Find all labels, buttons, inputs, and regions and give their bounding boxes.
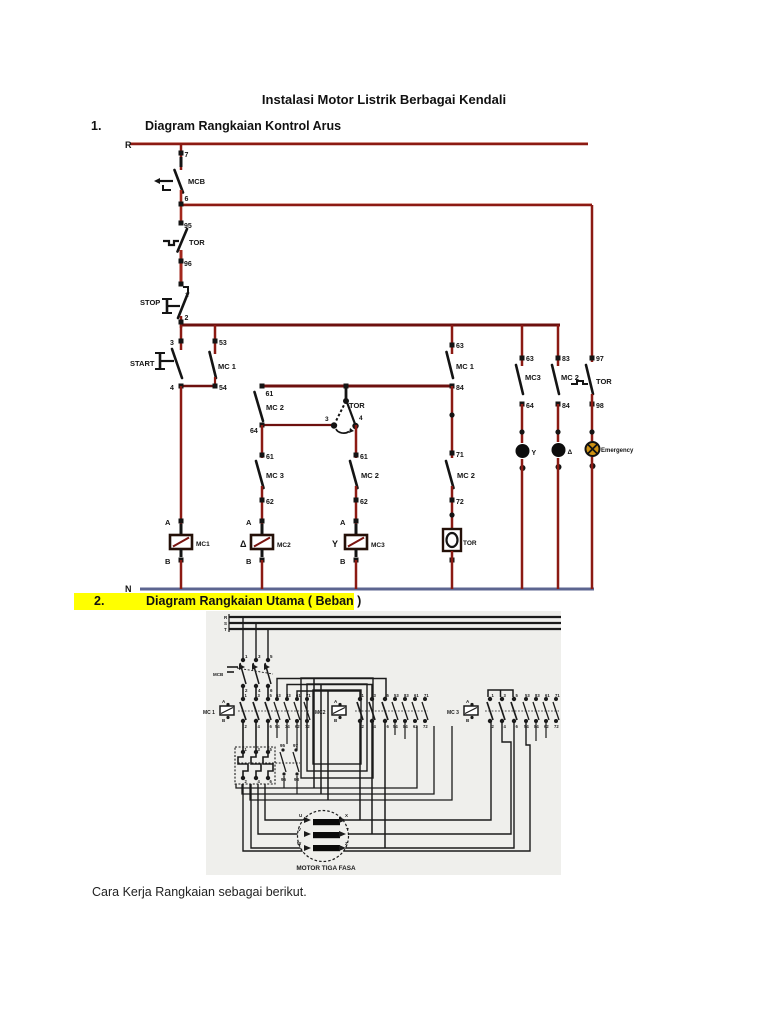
MC2 linkage	[355, 710, 428, 712]
wire bus node 61 to node 84	[262, 385, 452, 388]
svg-text:62: 62	[266, 499, 274, 506]
pin 53 label	[219, 340, 227, 347]
svg-text:A: A	[246, 518, 252, 527]
contact MC1 NO right	[447, 352, 454, 378]
wire MC1 aux62 stub	[296, 722, 298, 750]
wire node 96 to auxiliary contact	[180, 250, 183, 284]
node 84L	[556, 402, 561, 407]
contact MC2 right label	[457, 471, 475, 480]
node A coil MC1 top	[179, 519, 184, 524]
node 3	[179, 339, 184, 344]
svg-text:83: 83	[404, 693, 409, 698]
contact MC2 NO lamp Delta	[552, 365, 559, 394]
MC1 aux contact 2	[284, 702, 290, 720]
MC2 main contact 1	[357, 702, 363, 720]
MC2 aux pole 3 top node	[413, 697, 417, 701]
MC3 aux contact 3	[543, 702, 549, 720]
motor terminal Z label	[345, 841, 348, 846]
wire node 4 down to coil MC1	[180, 386, 183, 524]
terminal B label MC1	[165, 557, 171, 566]
svg-text:3: 3	[170, 340, 174, 347]
pin 72 label	[456, 499, 464, 506]
lamp Emergency bottom	[590, 463, 596, 469]
svg-text:A: A	[340, 518, 346, 527]
svg-text:97: 97	[596, 356, 604, 363]
MCB out node 4	[254, 684, 258, 688]
MC3 main contact 1	[487, 702, 493, 720]
svg-text:R: R	[125, 140, 132, 150]
svg-text:71: 71	[424, 693, 429, 698]
bus left tie	[228, 614, 230, 632]
wire bus to node 53	[214, 325, 217, 354]
MC3 main contact 2	[499, 702, 505, 720]
svg-text:98: 98	[596, 403, 604, 410]
svg-text:62: 62	[360, 499, 368, 506]
svg-text:62: 62	[295, 724, 300, 729]
node TOR selector junction	[344, 384, 349, 389]
svg-text:Y: Y	[532, 450, 537, 457]
node 64	[260, 423, 265, 428]
pin 84L label	[562, 403, 570, 410]
pin 71 label	[456, 452, 464, 459]
wire MC1 aux feed 2	[287, 685, 321, 700]
junction 432b	[555, 429, 560, 434]
MC1 main pin labels	[245, 693, 273, 729]
pushbutton START	[155, 349, 182, 378]
svg-text:63: 63	[526, 356, 534, 363]
wire bus 2 to node 63	[521, 325, 524, 366]
svg-text:61: 61	[545, 693, 550, 698]
MCB out pin 2 label	[245, 688, 248, 693]
svg-text:N: N	[125, 584, 132, 594]
svg-text:MCB: MCB	[213, 672, 224, 677]
wire TOR out 2 riser	[242, 726, 434, 794]
wire arch inner around MC2	[328, 691, 360, 800]
pin 2 label	[185, 315, 189, 322]
node 63	[520, 356, 525, 361]
junction 515	[449, 512, 454, 517]
svg-text:B: B	[340, 557, 346, 566]
contact TOR emergency label	[596, 377, 612, 386]
wire motor X row to MC3 pole1	[339, 722, 491, 820]
wire STOP to node 2	[180, 316, 183, 328]
svg-text:B: B	[246, 557, 252, 566]
TOR in pin 3 label	[258, 747, 261, 752]
wire node 4 to node 54	[181, 385, 215, 388]
MC2 main pole 1 bottom node	[358, 719, 362, 723]
svg-text:MC3: MC3	[525, 373, 541, 382]
MC3 aux bottom pin labels	[524, 724, 559, 729]
MCB out node 6	[266, 684, 270, 688]
svg-text:53: 53	[219, 340, 227, 347]
MC1 main pole 1 bottom node	[241, 719, 245, 723]
TOR heater elements	[238, 754, 300, 776]
TOR aux node 96	[282, 772, 285, 775]
svg-text:61: 61	[266, 454, 274, 461]
MC1 aux pole 3 bottom node	[295, 719, 299, 723]
selector point 3	[331, 422, 337, 428]
contact MC2 mid label	[361, 471, 379, 480]
contact MC2 NC interlock mid	[350, 461, 358, 488]
pin 64 label	[250, 428, 258, 435]
MC1 main contact 2	[253, 702, 259, 720]
wire MC2 pole2 drop	[371, 722, 373, 834]
breaker MCB	[154, 170, 183, 193]
wire MC1 aux34 stub	[286, 722, 288, 744]
lamp Delta label	[568, 449, 573, 456]
bus phase R	[229, 616, 561, 618]
MC3 main pole 1 top node	[488, 697, 492, 701]
MC3 aux contact 2	[533, 702, 539, 720]
contact TOR trip emergency	[571, 365, 593, 394]
svg-text:MC 2: MC 2	[266, 403, 284, 412]
node 61b	[260, 453, 265, 458]
svg-text:MC 2: MC 2	[457, 471, 475, 480]
pin 62c label	[360, 499, 368, 506]
svg-text:3: 3	[325, 416, 329, 423]
node 6	[179, 202, 184, 207]
contact MC2 label	[266, 403, 284, 412]
wire node 84 to node 71	[451, 386, 454, 458]
svg-text:Δ: Δ	[568, 449, 573, 456]
coil MC3 label	[371, 542, 385, 549]
node B coil MC1 bottom	[179, 558, 184, 563]
contact MC3 label	[266, 471, 284, 480]
wire phase S drop	[255, 623, 257, 660]
pin 3 label	[170, 340, 174, 347]
MCB node 3	[254, 658, 258, 662]
svg-text:Y: Y	[332, 539, 338, 549]
wire MC3 aux62 stub	[545, 722, 547, 738]
MC2 aux pole 1 bottom node	[393, 719, 397, 723]
svg-text:4: 4	[359, 415, 363, 422]
wire arch outer around MC2	[314, 679, 386, 789]
net label N	[125, 584, 132, 594]
MC1 aux pole 3 top node	[295, 697, 299, 701]
MC1 main pole 3 bottom node	[266, 719, 270, 723]
wire node 64 to node 61b	[261, 425, 264, 458]
node 2	[179, 320, 184, 325]
motor terminal Y label	[346, 827, 349, 832]
contact MC1 right label	[456, 362, 474, 371]
MC3 main pole 3 bottom node	[512, 719, 516, 723]
svg-text:97: 97	[293, 743, 299, 748]
MCB label	[213, 672, 224, 677]
node 61c	[354, 453, 359, 458]
TOR in node 3	[254, 750, 258, 754]
motor terminal W label	[297, 841, 302, 846]
TOR pin 96 label	[281, 777, 287, 782]
MCB out pin 6 label	[270, 688, 273, 693]
wire MCB to MC1 pole 2	[255, 686, 257, 699]
TOR in node 1	[241, 750, 245, 754]
svg-text:6: 6	[185, 196, 189, 203]
wire arch middle around MC2	[321, 685, 372, 795]
contactor coil MC2	[315, 699, 346, 723]
node 62	[260, 498, 265, 503]
contact MC2 NC interlock	[255, 392, 264, 421]
MC1 aux contact 3	[294, 702, 300, 720]
TOR pin 98 label	[294, 777, 300, 782]
TOR out pin 2 label	[245, 779, 248, 784]
MC1 aux contact 4	[304, 702, 310, 720]
svg-text:64: 64	[526, 403, 534, 410]
MC3 aux pole 4 bottom node	[554, 719, 558, 723]
wire MC2 aux84 stub	[404, 722, 406, 739]
pushbutton STOP	[162, 293, 188, 318]
coil MC1 label	[196, 541, 210, 548]
lamp Emergency indicator	[586, 442, 600, 456]
MC1 aux pole 1 bottom node	[275, 719, 279, 723]
MC2 aux contact 2	[402, 702, 408, 720]
wire node 2 to node 3	[180, 325, 183, 350]
svg-text:Z: Z	[345, 841, 348, 846]
svg-text:71: 71	[456, 452, 464, 459]
wire MC1 to TOR pole 1	[242, 721, 244, 752]
svg-text:83: 83	[562, 356, 570, 363]
TOR out node 6	[266, 776, 270, 780]
routing loop middle	[307, 684, 367, 771]
auxiliary notch contact	[183, 287, 188, 292]
svg-text:MC 3: MC 3	[447, 710, 459, 716]
MC3 aux pole 3 top node	[544, 697, 548, 701]
MC1 main pole 3 top node	[266, 697, 270, 701]
wire MC1 aux54 stub	[276, 722, 278, 738]
wire bus 2 to node 83	[557, 325, 560, 366]
MC3 main pole 2 top node	[500, 697, 504, 701]
motor terminal V label	[298, 827, 301, 832]
contactor coil MC 1	[203, 699, 234, 723]
svg-text:53: 53	[394, 693, 399, 698]
MC2 aux pole 4 bottom node	[423, 719, 427, 723]
MCB out pin 4 label	[258, 688, 261, 693]
wire lamp Delta to N	[557, 458, 560, 589]
TOR out pin 4 label	[258, 779, 261, 784]
node B coil MC3 bottom	[354, 558, 359, 563]
svg-text:83: 83	[535, 693, 540, 698]
pin 95 label	[184, 223, 192, 230]
MC2 main pole 2 bottom node	[370, 719, 374, 723]
svg-text:S: S	[224, 621, 227, 626]
wire TOR aux98 stub	[296, 776, 298, 794]
svg-text:96: 96	[184, 261, 192, 268]
MC2 aux pole 2 bottom node	[403, 719, 407, 723]
MC3 aux pole 4 top node	[554, 697, 558, 701]
MC3 aux contact 4	[553, 702, 559, 720]
MC1 main pole 1 top node	[241, 697, 245, 701]
wire bottom outer loop	[243, 722, 530, 851]
svg-text:64: 64	[250, 428, 258, 435]
MC1 main pole 2 top node	[254, 697, 258, 701]
MCB pin 3 label	[258, 654, 261, 659]
contactor coil MC 3	[447, 699, 478, 723]
lamp Emergency label	[601, 448, 634, 454]
delta symbol label MC2	[240, 539, 247, 549]
lamp Delta bottom	[556, 464, 562, 470]
node 98	[590, 402, 595, 407]
svg-text:72: 72	[423, 724, 428, 729]
MC2 aux contact 1	[392, 702, 398, 720]
routing loop outer	[301, 678, 373, 778]
pin 83 label	[562, 356, 570, 363]
wire from node 6 to emergency branch	[181, 204, 592, 205]
wire emergency branch vertical upper	[591, 205, 594, 362]
wire lamp Emergency to N	[591, 457, 594, 589]
node 53	[213, 339, 218, 344]
svg-text:T: T	[224, 627, 227, 632]
TOR out pin 6 label	[270, 779, 273, 784]
MC3 linkage	[485, 710, 559, 712]
svg-text:TOR: TOR	[596, 377, 612, 386]
breaker MCB label	[188, 177, 206, 186]
MC1 aux pole 4 top node	[305, 697, 309, 701]
contact MC3 NC interlock	[256, 461, 264, 488]
pin 63 label	[526, 356, 534, 363]
node 72	[450, 498, 455, 503]
TOR aux node 95	[281, 748, 284, 751]
neutral bus N	[140, 588, 594, 591]
svg-text:Δ: Δ	[240, 539, 247, 549]
wire node 64 to TOR selector point 3	[262, 424, 333, 426]
MC1 main pole 2 bottom node	[254, 719, 258, 723]
pin 98 label	[596, 403, 604, 410]
terminal A label MC2	[246, 518, 252, 527]
MC2 aux pole 4 top node	[423, 697, 427, 701]
node 61	[260, 384, 265, 389]
coil MC3 star	[345, 524, 367, 557]
MC1 linkage	[238, 710, 310, 712]
wire MC3 star bridge	[488, 690, 513, 697]
thermal overload contact TOR NC	[163, 229, 187, 252]
svg-text:84: 84	[456, 385, 464, 392]
MC3 aux pole 1 bottom node	[524, 719, 528, 723]
wire MC2 aux54 stub	[394, 722, 396, 735]
wire R bus to MCB	[180, 144, 183, 170]
pin 62 label	[266, 499, 274, 506]
TOR contact label	[189, 238, 205, 247]
svg-text:62: 62	[544, 724, 549, 729]
node 63r	[450, 343, 455, 348]
MC3 aux pole 2 bottom node	[534, 719, 538, 723]
junction 432a	[519, 429, 524, 434]
wire node 72 to coil TOR	[451, 486, 454, 530]
svg-text:MC1: MC1	[196, 541, 210, 548]
svg-text:84: 84	[534, 724, 539, 729]
motor terminal U label	[299, 813, 302, 818]
MC3 aux top pin labels	[525, 693, 560, 698]
svg-text:MC 1: MC 1	[203, 710, 215, 716]
MC3 aux pole 3 bottom node	[544, 719, 548, 723]
MC1 aux contact 1	[274, 702, 280, 720]
contact MC2 lamp label	[561, 373, 579, 382]
pin 84r label	[456, 385, 464, 392]
svg-text:72: 72	[456, 499, 464, 506]
coil MC1	[170, 524, 192, 557]
MC2 main pole 1 top node	[358, 697, 362, 701]
svg-text:Emergency: Emergency	[601, 448, 634, 454]
pin 4 label	[170, 385, 174, 392]
wire contact MC1 to node 54	[214, 377, 216, 386]
bus label S	[224, 621, 227, 626]
MC3 aux pole 2 top node	[534, 697, 538, 701]
MC2 main pole 2 top node	[370, 697, 374, 701]
svg-text:95: 95	[280, 743, 286, 748]
svg-text:54: 54	[219, 385, 227, 392]
contact MC1 NO holding	[210, 352, 217, 378]
junction 415	[449, 412, 454, 417]
wire phase R drop	[242, 617, 244, 660]
breaker MCB 3-pole	[227, 663, 273, 684]
wire phase T drop	[267, 629, 269, 660]
wire coil MC2 to N	[261, 560, 264, 589]
bus label T	[224, 627, 227, 632]
terminal B label MC3	[340, 557, 346, 566]
node 64L	[520, 402, 525, 407]
svg-text:V: V	[298, 827, 301, 832]
svg-text:7: 7	[185, 152, 189, 159]
bus label R	[224, 615, 228, 620]
wire TOR out 3 riser	[250, 726, 452, 800]
TOR out node 2	[241, 776, 245, 780]
wire node 84L to lamp Delta	[557, 404, 560, 442]
wire MCB to MC1 pole 3	[267, 686, 269, 699]
MC3 main pole 1 bottom node	[488, 719, 492, 723]
wire MC3 aux84 stub	[535, 722, 537, 741]
node 62c	[354, 498, 359, 503]
pin 61b label	[266, 454, 274, 461]
wire MCB to node 95	[180, 190, 183, 224]
wire to motor terminal W	[251, 784, 311, 848]
svg-text:61: 61	[414, 693, 419, 698]
pin 96 label	[184, 261, 192, 268]
svg-text:TOR: TOR	[463, 540, 477, 547]
MC1 main contact 3	[265, 702, 271, 720]
pin 54 label	[219, 385, 227, 392]
TOR aux node 98	[295, 772, 298, 775]
MC2 aux pole 1 top node	[393, 697, 397, 701]
pin 6 label	[185, 196, 189, 203]
svg-text:61: 61	[266, 391, 274, 398]
motor terminal X label	[345, 813, 348, 818]
bus phase T	[229, 628, 561, 630]
MC2 aux pole 3 bottom node	[413, 719, 417, 723]
wire motor Z row to MC3 pole3	[339, 722, 514, 848]
lamp Y indicator	[516, 444, 530, 458]
TOR pin 97 label	[293, 743, 299, 748]
svg-text:2: 2	[185, 315, 189, 322]
MC2 aux bottom pin labels	[393, 724, 428, 729]
node 96	[179, 259, 184, 264]
node 95	[179, 221, 184, 226]
pin 7 label	[185, 152, 189, 159]
MC1 aux pole 4 bottom node	[305, 719, 309, 723]
svg-text:X: X	[345, 813, 348, 818]
node A coil MC3 top	[354, 519, 359, 524]
START button label	[130, 359, 155, 368]
terminal A label MC3	[340, 518, 346, 527]
lamp Y label	[532, 450, 537, 457]
MC2 main pole 3 top node	[383, 697, 387, 701]
thermal overload TOR box	[235, 747, 275, 784]
MC1 aux pole 2 bottom node	[285, 719, 289, 723]
wire node 64L to lamp Y	[521, 404, 524, 443]
pin 1 label	[185, 292, 189, 299]
MCB pin 5 label	[270, 654, 273, 659]
TOR aux node 97	[294, 748, 297, 751]
MC1 main contact 1	[240, 702, 246, 720]
pin 97 label	[596, 356, 604, 363]
node B coil MC2 bottom	[260, 558, 265, 563]
